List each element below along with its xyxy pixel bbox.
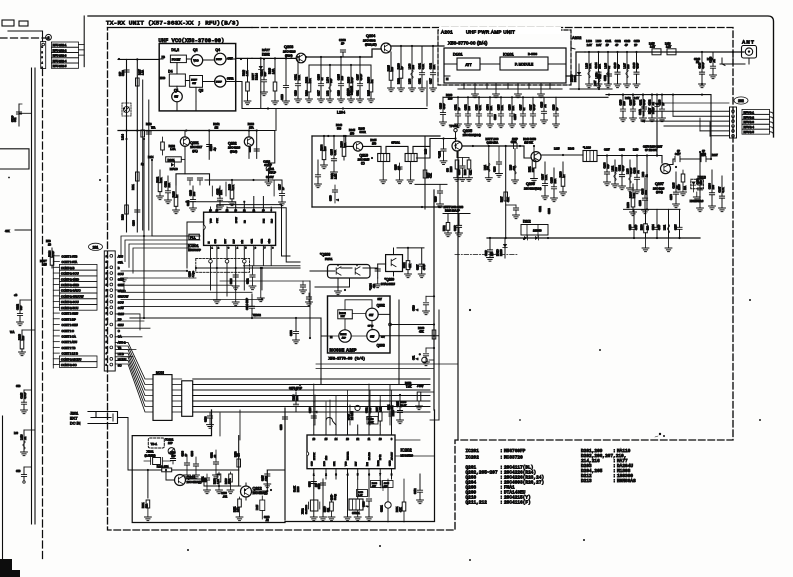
svg-text:SHU: SHU: [118, 323, 124, 327]
svg-text:SPVF: SPVF: [349, 413, 351, 420]
capacitor C249b: [515, 205, 517, 207]
svg-text:56V: 56V: [381, 337, 385, 339]
svg-text:2.2K: 2.2K: [501, 105, 504, 110]
svg-text:(BL): (BL): [192, 149, 197, 153]
wire IF box left: [311, 136, 313, 207]
svg-text:120: 120: [627, 64, 630, 69]
svg-text:IC201: IC201: [466, 449, 480, 454]
svg-text:C303: C303: [310, 481, 312, 487]
svg-text:C301: C301: [389, 404, 391, 410]
wire bus under IC201: [196, 267, 300, 269]
svg-text:R280: R280: [372, 483, 378, 485]
svg-text:MODI: MODI: [156, 371, 164, 375]
wire pin4 down: [347, 479, 349, 517]
svg-text:RFU-202-3: RFU-202-3: [53, 54, 67, 58]
capacitor C217c: [235, 268, 237, 274]
wires to connector 202: [648, 110, 729, 112]
svg-text:R246: R246: [359, 127, 366, 131]
svg-text:56P: 56P: [599, 74, 602, 79]
svg-text:L230: L230: [643, 171, 645, 177]
svg-text:CF201: CF201: [352, 511, 360, 515]
svg-text:C258: C258: [459, 169, 461, 175]
svg-text:IC202: IC202: [401, 448, 413, 453]
wire to Q206: [524, 146, 531, 158]
capacitor C218c: [252, 266, 254, 274]
wire D216 seg: [443, 213, 470, 215]
svg-text:NOISE: NOISE: [340, 334, 347, 336]
svg-text:2.2 6.3H: 2.2 6.3H: [352, 411, 354, 420]
svg-text:56.3μ: 56.3μ: [335, 494, 337, 500]
svg-text:4.7K: 4.7K: [479, 105, 482, 110]
svg-text:56P: 56P: [618, 64, 621, 69]
svg-text:*L226: *L226: [583, 146, 591, 150]
svg-text:4.7K: 4.7K: [232, 185, 235, 190]
capacitor C248f: [439, 184, 441, 190]
svg-text:D15: D15: [42, 264, 47, 267]
svg-text::: :: [500, 501, 503, 506]
module A201 inner box: [444, 48, 566, 83]
svg-text:FIN: FIN: [242, 240, 244, 244]
svg-text:C289: C289: [221, 492, 227, 495]
wire Q202 verticals: [248, 131, 250, 138]
top-left film marks: [2, 20, 14, 26]
svg-text:STOP: STOP: [269, 171, 276, 175]
svg-text:Q2: Q2: [193, 48, 198, 52]
wire rx bus: [462, 145, 524, 147]
wire ic202 right links: [380, 440, 434, 485]
inductor L231: [668, 209, 670, 238]
diode D204: [578, 64, 580, 89]
svg-text:4P: 4P: [625, 44, 628, 47]
diode D201: [166, 157, 182, 162]
svg-text:15P: 15P: [492, 251, 494, 256]
svg-text:R270: R270: [235, 451, 237, 457]
svg-text:C260: C260: [495, 166, 497, 172]
connector label circled 2: [46, 34, 52, 40]
wire VCO out2: [236, 82, 242, 109]
svg-text:C58: C58: [16, 385, 21, 388]
wire left rail x31: [31, 68, 33, 524]
svg-text:L214: L214: [121, 134, 125, 140]
transistor Q212: [241, 486, 252, 497]
svg-text:C248: C248: [639, 109, 642, 115]
svg-text:DTA143EU: DTA143EU: [381, 282, 395, 286]
svg-text:47K: 47K: [419, 330, 424, 334]
svg-text:6P: 6P: [677, 150, 680, 153]
svg-text:L240: L240: [332, 494, 334, 500]
svg-text:MODU: MODU: [118, 358, 127, 362]
svg-text:CONT 2 CA: CONT 2 CA: [62, 334, 76, 338]
svg-text:4.7K: 4.7K: [422, 64, 425, 69]
svg-text:R239: R239: [451, 166, 453, 172]
wire Q201 vertical: [184, 131, 186, 138]
svg-text:(R24): (R24): [285, 54, 293, 58]
svg-text:L204: L204: [337, 111, 345, 115]
svg-text:CONT 2 SHU: CONT 2 SHU: [62, 323, 78, 327]
svg-text:4.7K: 4.7K: [722, 187, 725, 192]
svg-text:BF-AUD: BF-AUD: [368, 452, 371, 460]
connector 202 labels: [742, 109, 770, 114]
svg-text:R297: R297: [712, 154, 718, 157]
svg-text:1P: 1P: [401, 66, 404, 69]
svg-text:2.8Y: 2.8Y: [596, 44, 601, 47]
wire IC201 left: [187, 222, 204, 268]
svg-text:RFU-202-4: RFU-202-4: [53, 59, 67, 63]
wire ant ground: [720, 58, 749, 64]
jack J201 symbol: [88, 412, 118, 424]
svg-text:IN: IN: [446, 78, 449, 81]
svg-text:C229: C229: [494, 114, 497, 120]
svg-text:X201: X201: [147, 450, 154, 454]
svg-text:R256: R256: [627, 202, 630, 208]
svg-text:STOP: STOP: [11, 115, 14, 122]
transistor Q205: [452, 141, 462, 151]
svg-text:2.8Y: 2.8Y: [587, 44, 592, 47]
capacitor C214: [251, 294, 253, 306]
capacitor C248: [643, 100, 645, 116]
svg-text:C241: C241: [605, 40, 612, 43]
wire bus Q204-A201: [391, 45, 444, 47]
wire left rail x35: [34, 68, 36, 524]
svg-text:SW: SW: [369, 313, 374, 317]
svg-text:4.7K: 4.7K: [334, 150, 337, 155]
svg-text:2.2Y: 2.2Y: [634, 97, 639, 100]
svg-text:120: 120: [623, 101, 626, 106]
svg-text:10A: 10A: [512, 106, 515, 111]
svg-text:L30: L30: [14, 432, 19, 435]
capacitor C273: [633, 209, 635, 227]
wire pins5-8 bus: [243, 249, 300, 266]
svg-text:2.2K: 2.2K: [160, 177, 163, 182]
svg-text:VCO: VCO: [193, 60, 198, 63]
svg-text:L245: L245: [257, 504, 259, 510]
capacitor C210col: [208, 131, 210, 160]
svg-text:2P: 2P: [634, 44, 637, 47]
wire L204 drop: [275, 109, 277, 131]
svg-text:L213: L213: [707, 58, 713, 61]
svg-text:470P: 470P: [622, 165, 625, 171]
svg-text:MA77: MA77: [649, 107, 652, 114]
svg-text:R225: R225: [368, 90, 371, 96]
wire IC201 pin extensions: [217, 268, 261, 302]
svg-text:D1,2: D1,2: [171, 48, 179, 52]
svg-text:CONT 2 ATU: CONT 2 ATU: [62, 340, 78, 344]
svg-text:LPSW: LPSW: [236, 217, 238, 223]
svg-text:10A: 10A: [296, 396, 299, 401]
diode D214: [260, 58, 262, 108]
svg-text:R247: R247: [502, 196, 504, 202]
svg-text:RFU-202-1: RFU-202-1: [53, 43, 67, 47]
transistor Q207: [661, 164, 671, 174]
svg-text:R210: R210: [122, 214, 125, 220]
svg-text:Q204: Q204: [366, 34, 375, 38]
svg-text:C268: C268: [619, 149, 625, 152]
svg-text:C231: C231: [419, 78, 422, 84]
svg-text:C211: C211: [268, 167, 275, 171]
svg-text:Q207: Q207: [655, 182, 664, 186]
svg-text:TB-1: TB-1: [151, 442, 158, 446]
svg-text:UHF PWR AMP UNIT: UHF PWR AMP UNIT: [466, 30, 515, 35]
wire VCO out: [236, 57, 252, 59]
svg-text:GND: GND: [269, 238, 271, 243]
svg-text:C273: C273: [630, 224, 632, 230]
svg-text:150: 150: [350, 133, 355, 136]
svg-text:201: 201: [93, 246, 99, 250]
svg-text:C264: C264: [653, 224, 655, 230]
svg-text:CONT-2-MODU: CONT-2-MODU: [61, 357, 81, 361]
capacitor C303: [313, 479, 315, 488]
svg-text:Q205: Q205: [463, 129, 472, 133]
svg-text:470P: 470P: [633, 99, 636, 105]
svg-text:Q303: Q303: [377, 343, 385, 347]
svg-text:47K: 47K: [372, 486, 376, 488]
svg-text:L219: L219: [426, 148, 428, 154]
svg-text:4P: 4P: [615, 44, 618, 47]
wire noiseamp out links: [433, 323, 435, 325]
jumper pad block C290: [196, 258, 250, 272]
svg-text:CONT 2 LE B: CONT 2 LE B: [62, 352, 79, 356]
svg-text:DET: DET: [341, 316, 346, 318]
capacitor C58: [24, 389, 32, 391]
svg-text:2.2K: 2.2K: [589, 63, 592, 68]
svg-text:NOI: NOI: [367, 462, 369, 466]
svg-text:*C255: *C255: [438, 151, 441, 158]
svg-text:D203: D203: [346, 88, 350, 95]
svg-text:C246: C246: [264, 517, 270, 519]
capacitor C208: [135, 210, 140, 212]
svg-text:3.3K: 3.3K: [402, 405, 407, 408]
svg-text:C208: C208: [132, 220, 135, 226]
svg-text:L207: L207: [594, 80, 597, 86]
resistor R272q: [407, 248, 409, 261]
svg-text:3Y: 3Y: [321, 77, 324, 80]
wire bundle drops: [220, 385, 390, 440]
wires into MODI: [115, 342, 153, 379]
wire VCO internals: [159, 59, 236, 111]
svg-text:C253: C253: [634, 40, 641, 43]
capacitor C261 series: [514, 143, 518, 148]
capacitor C248c: [458, 214, 460, 226]
svg-text:.01: .01: [713, 59, 716, 63]
svg-text:47OP: 47OP: [424, 264, 426, 270]
svg-text:2SC4116(F): 2SC4116(F): [187, 480, 202, 484]
svg-text:MC33720: MC33720: [504, 455, 523, 460]
wire into noiseamp: [321, 335, 328, 337]
svg-text:MOD: MOD: [160, 78, 166, 80]
svg-text:RFV-2-3: RFV-2-3: [744, 120, 755, 124]
svg-text:10A: 10A: [309, 78, 312, 83]
svg-text:C219: C219: [295, 90, 298, 96]
svg-text:1M 50K: 1M 50K: [524, 141, 533, 144]
connector 2 RFU-202: [41, 41, 46, 68]
noise amp circle: [339, 330, 351, 342]
resistor R702: [447, 214, 449, 223]
svg-text:C248: C248: [486, 250, 488, 256]
svg-text:D101: D101: [453, 52, 463, 57]
svg-text:NETTER: NETTER: [348, 451, 350, 460]
svg-text:MA77: MA77: [251, 73, 255, 80]
wire W202 run: [130, 317, 321, 319]
capacitor C189: [209, 412, 211, 415]
svg-text:C217: C217: [430, 78, 433, 84]
svg-text:CONT-2-GND: CONT-2-GND: [61, 283, 79, 287]
wire x425 vertical: [424, 136, 426, 209]
wire A201 pins: [463, 83, 465, 89]
svg-text:2: 2: [48, 36, 50, 40]
wire v x310: [309, 281, 311, 338]
svg-text:.01: .01: [652, 101, 655, 105]
svg-text:BUFF: BUFF: [216, 82, 222, 84]
svg-text:202: 202: [738, 99, 744, 103]
ground SAUC hook: [115, 283, 124, 290]
svg-text:C253: C253: [604, 75, 607, 81]
svg-text:OUTR: OUTR: [227, 79, 234, 81]
svg-text:C293: C293: [290, 330, 293, 336]
svg-text:56P: 56P: [20, 305, 23, 310]
svg-text:C213: C213: [338, 90, 341, 96]
svg-text:EXT: EXT: [70, 417, 78, 421]
svg-text:Q203: Q203: [284, 45, 293, 49]
wire antenna bus: [585, 51, 744, 53]
wire D213 gnd: [696, 192, 698, 197]
wire bundle drops2: [314, 384, 392, 425]
wire v x262: [261, 268, 263, 290]
svg-text:1B: 1B: [48, 244, 51, 247]
resistor R275 boxed: [367, 417, 378, 425]
svg-text:47OP: 47OP: [360, 73, 363, 80]
svg-text:R203: R203: [169, 144, 176, 148]
svg-text:1SS300: 1SS300: [533, 230, 542, 233]
svg-text:L210: L210: [625, 97, 631, 100]
svg-text:MTR: MTR: [334, 461, 336, 466]
svg-text:.01: .01: [24, 436, 27, 440]
connector label 202: [734, 97, 748, 104]
svg-text:L223: L223: [511, 164, 513, 170]
resistor left1: [22, 329, 35, 331]
wire IC201 pin drops: [211, 249, 245, 296]
wire antenna drop: [733, 52, 744, 64]
wire left column 2: [136, 59, 138, 232]
connector 202 pins: [730, 107, 737, 138]
svg-text:MAIIO: MAIIO: [497, 249, 500, 256]
svg-text:47OP: 47OP: [533, 104, 536, 111]
svg-text:C239: C239: [122, 70, 125, 76]
svg-text:R201: R201: [132, 184, 135, 190]
svg-text:RFU-202-2: RFU-202-2: [53, 48, 67, 52]
svg-text:D212: D212: [523, 220, 531, 224]
svg-text:B: B: [118, 266, 120, 270]
svg-text:2.2K: 2.2K: [334, 174, 337, 179]
svg-text:C200: C200: [192, 450, 194, 456]
svg-text:560R: 560R: [360, 130, 366, 134]
svg-text:R230: R230: [446, 93, 453, 97]
svg-text:UHF VCO(X58-3760-00): UHF VCO(X58-3760-00): [159, 38, 225, 44]
svg-text:32.35V: 32.35V: [266, 176, 274, 179]
svg-text:C279: C279: [700, 154, 706, 157]
svg-text:ATU: ATU: [118, 255, 123, 259]
svg-text:J201: J201: [70, 412, 78, 416]
resistor R280 boxed: [371, 481, 382, 488]
svg-text:R296: R296: [641, 224, 643, 230]
svg-text:SPVC: SPVC: [368, 326, 374, 328]
capacitor C51: [426, 347, 434, 349]
svg-text:C259: C259: [281, 424, 283, 430]
wire IC201 top routing: [186, 197, 300, 263]
svg-text:R702: R702: [444, 225, 446, 231]
svg-text:R240: R240: [465, 169, 467, 175]
svg-text:58.97680: 58.97680: [306, 504, 308, 514]
svg-text:STA: STA: [118, 260, 123, 264]
svg-text:L221: L221: [485, 164, 487, 170]
wire conn201 run y349: [121, 350, 136, 357]
capacitor C288: [313, 402, 315, 425]
svg-text:18A: 18A: [490, 106, 493, 111]
svg-text:C312: C312: [415, 488, 417, 494]
wire right cluster feed: [624, 208, 681, 210]
svg-text:47K: 47K: [410, 263, 412, 268]
wire bus Q203-Q204: [306, 56, 372, 58]
capacitor C284: [377, 264, 379, 278]
wire left page edge: [2, 416, 4, 577]
capacitor C70: [24, 466, 32, 468]
svg-text:SW: SW: [370, 334, 375, 338]
wire IC201 verticals up: [212, 180, 274, 196]
svg-text:100: 100: [700, 180, 703, 185]
ground stubs below bus: [645, 238, 647, 248]
inductor L215: [652, 49, 661, 55]
svg-text:6P 1M 88Y: 6P 1M 88Y: [645, 149, 658, 152]
filter grounds: [382, 162, 384, 181]
svg-text:C243: C243: [624, 40, 631, 43]
svg-text:7KA: 7KA: [151, 127, 156, 130]
svg-text:PLC: PLC: [271, 218, 273, 223]
svg-text:CONT-2-B: CONT-2-B: [61, 266, 75, 270]
wire q212 collector: [266, 470, 268, 491]
svg-text:1P: 1P: [282, 187, 285, 190]
svg-text:CONT 2 STB: CONT 2 STB: [62, 254, 78, 258]
transistor Q210: [353, 142, 362, 151]
svg-text:CONT 2 SMU: CONT 2 SMU: [62, 312, 79, 316]
svg-text:43K: 43K: [5, 229, 10, 233]
svg-text:C309: C309: [384, 483, 390, 485]
svg-text:FMA1: FMA1: [325, 257, 333, 261]
svg-text:R277: R277: [377, 406, 379, 412]
svg-text:HSM88AS: HSM88AS: [617, 479, 636, 484]
module box oscillator border: [132, 410, 285, 523]
wire q207 drop: [710, 150, 712, 152]
svg-text:C217: C217: [318, 90, 321, 96]
filter CF201: [349, 499, 363, 510]
svg-text:C248: C248: [436, 196, 438, 202]
jumper pin15-14: [326, 418, 336, 426]
capacitor C312: [419, 474, 421, 490]
wire Q208 leads: [310, 268, 378, 291]
wire bus bend to C216: [257, 131, 275, 167]
svg-text:SCU: SCU: [118, 300, 124, 304]
svg-text::: :: [500, 449, 503, 454]
svg-text:ENB: ENB: [326, 455, 328, 460]
transistor Q203: [296, 53, 306, 63]
svg-text:IC101: IC101: [503, 52, 514, 57]
svg-text:C202: C202: [211, 452, 213, 458]
svg-text:VCC: VCC: [211, 218, 213, 223]
wire bus y238: [487, 237, 700, 239]
svg-text:1P: 1P: [556, 107, 559, 110]
svg-text:(2.0MHz): (2.0MHz): [145, 453, 156, 457]
svg-text:B-4608: B-4608: [528, 52, 537, 56]
svg-text:15A: 15A: [249, 125, 254, 129]
svg-text:+B: +B: [14, 293, 18, 297]
